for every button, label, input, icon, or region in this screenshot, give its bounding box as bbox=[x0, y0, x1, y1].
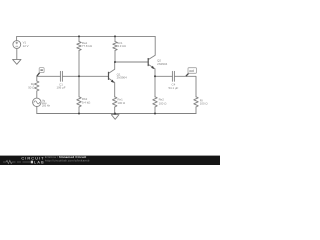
svg-text:100 Ω: 100 Ω bbox=[117, 101, 126, 105]
svg-text:9.4 kΩ: 9.4 kΩ bbox=[82, 101, 91, 105]
svg-text:out: out bbox=[189, 69, 194, 73]
svg-text:50 Ω: 50 Ω bbox=[28, 86, 35, 90]
svg-text:LAB: LAB bbox=[34, 161, 44, 165]
svg-text:100 Ω: 100 Ω bbox=[200, 102, 209, 106]
svg-text:54.1 μF: 54.1 μF bbox=[168, 86, 178, 90]
svg-text:12 V: 12 V bbox=[23, 44, 29, 48]
svg-text:2N3904: 2N3904 bbox=[117, 76, 128, 80]
svg-text:3.3 kΩ: 3.3 kΩ bbox=[117, 44, 126, 48]
svg-text:77.8 kΩ: 77.8 kΩ bbox=[82, 44, 93, 48]
svg-text:106 μF: 106 μF bbox=[56, 86, 65, 90]
svg-text:http://circuitlab.com/c/bskaex: http://circuitlab.com/c/bskaexb bbox=[45, 159, 90, 163]
svg-text:2N3904: 2N3904 bbox=[157, 62, 168, 66]
svg-text:100 Ω: 100 Ω bbox=[159, 101, 168, 105]
svg-text:200 Hz: 200 Hz bbox=[42, 105, 51, 108]
